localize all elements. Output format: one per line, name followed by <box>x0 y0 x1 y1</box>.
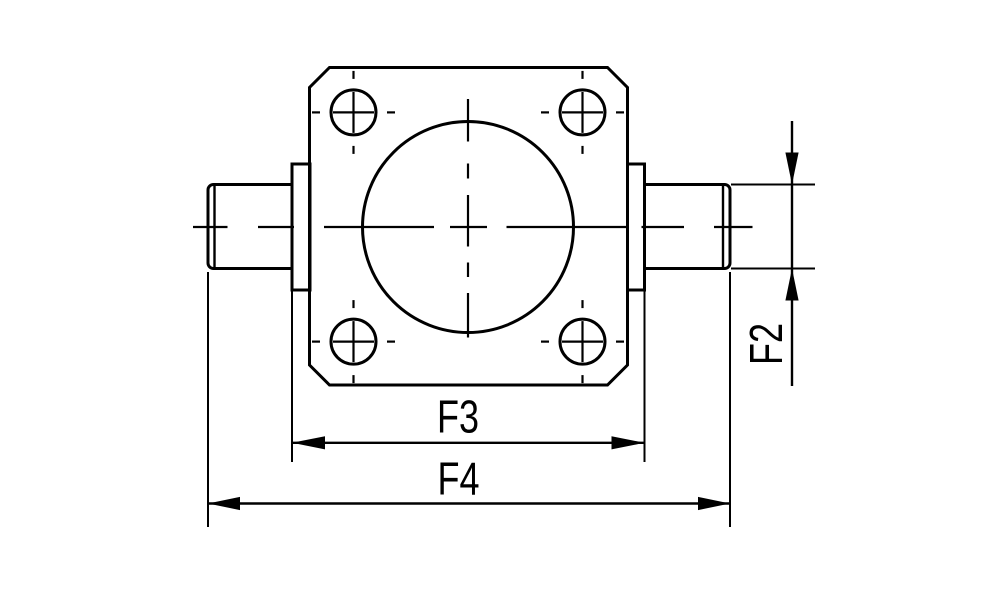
right shaft chamfer line <box>722 185 724 269</box>
bolt hole top-left <box>331 90 376 135</box>
F4 dimension line <box>208 502 730 504</box>
F3 extension line right <box>644 290 646 462</box>
F4 extension line right <box>729 272 731 527</box>
F3 arrow right <box>612 436 645 449</box>
central bore circle <box>363 122 574 333</box>
svg-text:F3: F3 <box>437 391 479 443</box>
bolt hole bottom-right <box>560 319 605 364</box>
F2 arrow bottom <box>785 269 798 301</box>
F2 dimension line <box>791 121 793 386</box>
bolt hole top-right <box>560 90 605 135</box>
left shaft chamfer line <box>213 185 215 269</box>
horizontal centerline <box>193 226 753 228</box>
svg-text:F4: F4 <box>438 453 480 505</box>
F4 extension line left <box>207 272 209 527</box>
left shaft <box>208 185 292 269</box>
right shaft <box>645 185 731 269</box>
flange plate outline <box>310 68 628 386</box>
vertical centerline <box>467 99 469 338</box>
bolt hole top-right cross <box>541 71 624 154</box>
F3 arrow left <box>292 436 325 449</box>
F3 dimension line <box>292 442 645 444</box>
left collar <box>292 164 310 290</box>
F2 extension line top <box>731 184 815 186</box>
F2 arrow top <box>785 153 798 185</box>
F4 arrow left <box>208 497 240 510</box>
F4 arrow right <box>698 497 730 510</box>
bolt hole bottom-right cross <box>541 300 624 383</box>
svg-text:F2: F2 <box>740 323 792 365</box>
bolt hole top-left cross <box>312 71 395 154</box>
bolt hole bottom-left cross <box>312 300 395 383</box>
F2 extension line bottom <box>731 268 815 270</box>
F3 extension line left <box>291 290 293 462</box>
right collar <box>628 164 645 290</box>
bolt hole bottom-left <box>331 319 376 364</box>
